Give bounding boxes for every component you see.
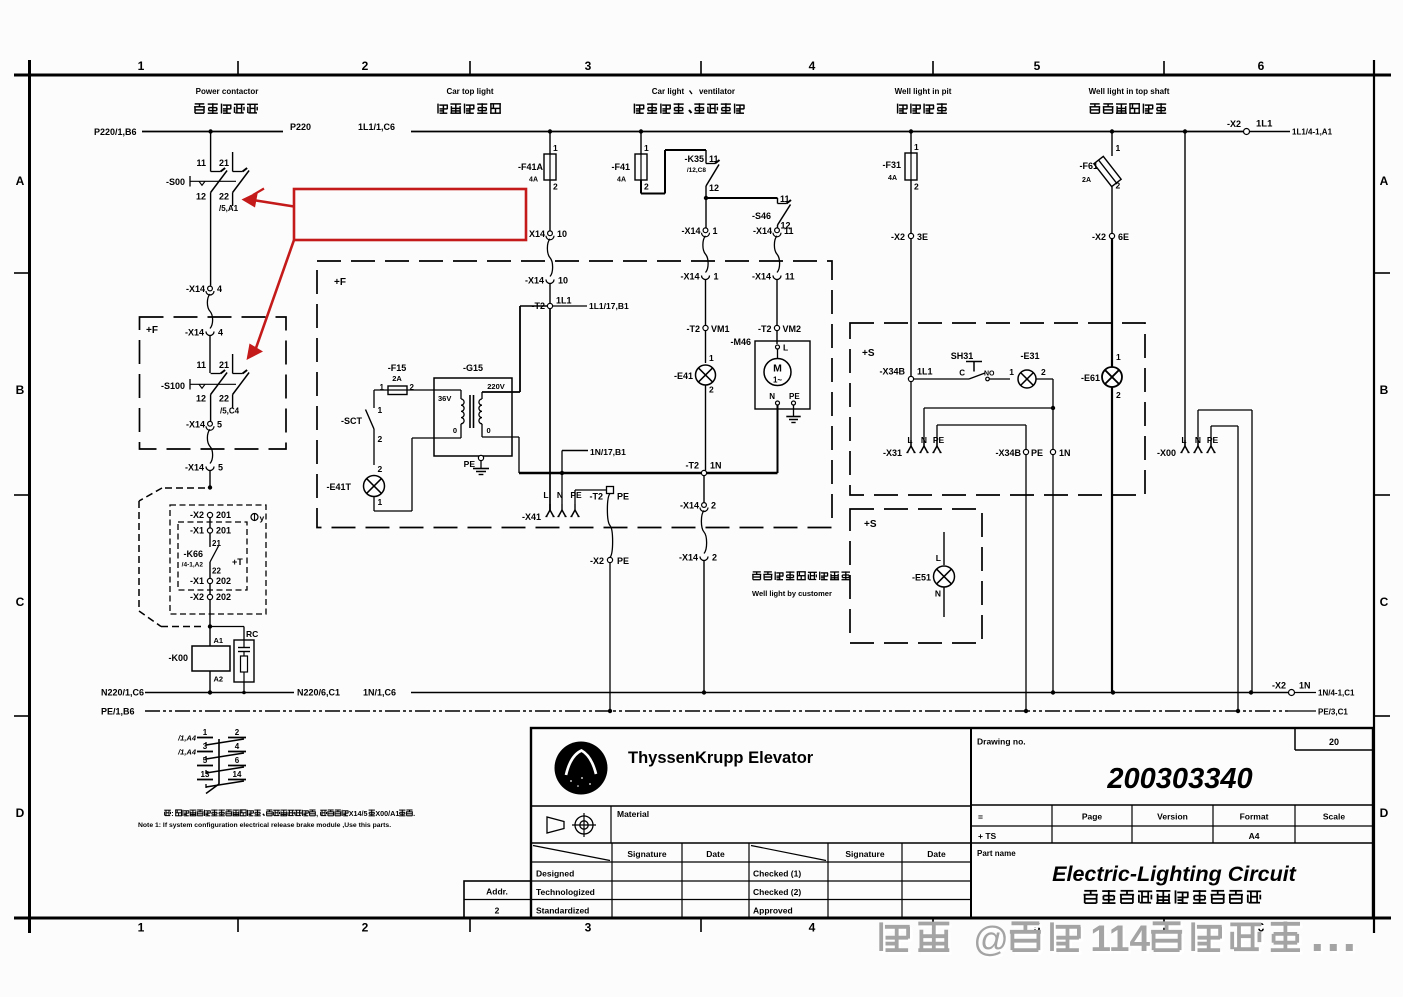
- svg-text:3: 3: [585, 59, 592, 73]
- svg-text:Designed: Designed: [536, 869, 574, 879]
- svg-text:1L1: 1L1: [556, 296, 572, 306]
- svg-text:0: 0: [487, 426, 491, 435]
- svg-text:-X34B: -X34B: [995, 448, 1021, 458]
- svg-text:1: 1: [714, 272, 719, 282]
- svg-text:2: 2: [378, 434, 383, 444]
- svg-text:N: N: [557, 490, 563, 500]
- svg-text:1: 1: [138, 921, 145, 935]
- svg-text:Standardized: Standardized: [536, 906, 589, 916]
- svg-text:1: 1: [713, 226, 718, 236]
- svg-text:-SCT: -SCT: [341, 416, 362, 426]
- svg-text:21: 21: [212, 539, 221, 548]
- svg-text:21: 21: [219, 158, 229, 168]
- svg-text:X14/5: X14/5: [349, 809, 368, 818]
- svg-text:-X2: -X2: [190, 510, 204, 520]
- svg-text:PE: PE: [570, 490, 582, 500]
- svg-text:2: 2: [410, 383, 415, 392]
- svg-text:-X2: -X2: [1227, 119, 1241, 129]
- svg-text:A: A: [16, 174, 25, 188]
- svg-text:10: 10: [557, 229, 567, 239]
- svg-text:1N: 1N: [1059, 448, 1071, 458]
- svg-text:Format: Format: [1240, 812, 1269, 822]
- svg-text:200303340: 200303340: [1106, 763, 1252, 795]
- svg-text:C: C: [959, 369, 965, 378]
- svg-text:-X2: -X2: [1092, 232, 1106, 242]
- svg-text:202: 202: [216, 592, 231, 602]
- svg-text:-X2: -X2: [891, 232, 905, 242]
- svg-text:B: B: [1380, 383, 1389, 397]
- svg-text:-X1: -X1: [190, 576, 204, 586]
- svg-text:1L1: 1L1: [1256, 119, 1273, 130]
- svg-text:2: 2: [362, 921, 369, 935]
- svg-text:-S46: -S46: [752, 211, 771, 221]
- svg-text:1: 1: [378, 405, 383, 415]
- svg-text:Signature: Signature: [845, 849, 884, 859]
- svg-text:201: 201: [216, 510, 231, 520]
- svg-text:12: 12: [196, 394, 206, 404]
- svg-text:NO: NO: [984, 371, 995, 378]
- svg-text:1L1: 1L1: [917, 367, 933, 377]
- svg-text:1L1/1,C6: 1L1/1,C6: [358, 122, 395, 132]
- svg-text:1N/4-1,C1: 1N/4-1,C1: [1318, 689, 1355, 698]
- svg-text:-T2: -T2: [758, 324, 772, 334]
- svg-text:PE: PE: [933, 435, 945, 445]
- svg-text:-T2: -T2: [686, 461, 700, 471]
- svg-text:-F41A: -F41A: [518, 162, 544, 172]
- svg-text:1L1/17,B1: 1L1/17,B1: [589, 301, 629, 311]
- svg-text:Checked (1): Checked (1): [753, 869, 801, 879]
- svg-text:+S: +S: [862, 348, 875, 359]
- svg-text:-E61: -E61: [1081, 373, 1100, 383]
- svg-text:/12,C8: /12,C8: [687, 167, 707, 174]
- svg-text:N: N: [769, 392, 775, 401]
- svg-text:-X14: -X14: [680, 501, 699, 511]
- svg-text:-X2: -X2: [590, 556, 604, 566]
- svg-text:N: N: [935, 589, 941, 599]
- svg-text:ventilator: ventilator: [699, 87, 735, 96]
- svg-text:-E51: -E51: [912, 573, 931, 583]
- svg-text:-F41: -F41: [611, 162, 630, 172]
- svg-text:-X14: -X14: [752, 272, 771, 282]
- svg-text:3: 3: [203, 742, 208, 751]
- svg-text:X14: X14: [529, 229, 545, 239]
- svg-text:Date: Date: [706, 849, 725, 859]
- svg-text:12: 12: [709, 183, 719, 193]
- svg-text:2: 2: [1116, 181, 1121, 191]
- svg-text:1: 1: [914, 142, 919, 152]
- svg-text:4: 4: [235, 742, 240, 751]
- svg-text:-F31: -F31: [882, 160, 901, 170]
- svg-text:1~: 1~: [773, 376, 782, 385]
- svg-text:Note 1: If system configurati: Note 1: If system configuration electric…: [138, 822, 391, 829]
- svg-text:202: 202: [216, 576, 231, 586]
- svg-text:-X31: -X31: [883, 448, 902, 458]
- svg-text:M: M: [773, 363, 782, 375]
- svg-text:Approved: Approved: [753, 906, 793, 916]
- svg-text:1N: 1N: [1299, 681, 1311, 691]
- svg-text:@: @: [973, 920, 1009, 959]
- svg-text:Well light in top shaft: Well light in top shaft: [1089, 87, 1170, 96]
- svg-text:-X14: -X14: [186, 284, 205, 294]
- svg-text:=: =: [978, 812, 983, 822]
- svg-text:Signature: Signature: [627, 849, 666, 859]
- svg-text:201: 201: [216, 526, 231, 536]
- svg-text:2A: 2A: [392, 374, 402, 383]
- svg-text:2: 2: [1116, 390, 1121, 400]
- svg-text:2: 2: [553, 182, 558, 192]
- svg-text:-X14: -X14: [680, 272, 699, 282]
- svg-text:-K66: -K66: [183, 549, 203, 559]
- svg-text:+F: +F: [334, 277, 346, 288]
- svg-text:2: 2: [235, 728, 240, 737]
- svg-text:+T: +T: [232, 557, 243, 567]
- svg-text:11: 11: [784, 226, 794, 236]
- svg-text:220V: 220V: [487, 382, 505, 391]
- svg-text:-X14: -X14: [681, 226, 700, 236]
- svg-text:1: 1: [553, 143, 558, 153]
- svg-text:-S100: -S100: [161, 381, 185, 391]
- svg-text:A1: A1: [214, 636, 224, 645]
- svg-text:-X1: -X1: [190, 526, 204, 536]
- svg-text:-K35: -K35: [684, 154, 704, 164]
- svg-text:5: 5: [203, 756, 208, 765]
- svg-text:1: 1: [203, 728, 208, 737]
- svg-text:PE/3,C1: PE/3,C1: [1318, 708, 1348, 717]
- svg-text:RC: RC: [246, 629, 258, 639]
- svg-text:.: .: [413, 809, 415, 818]
- svg-text:10: 10: [558, 276, 568, 286]
- svg-text:5: 5: [217, 419, 222, 429]
- svg-text::: :: [171, 809, 173, 818]
- svg-text:4: 4: [809, 59, 816, 73]
- svg-text:A2: A2: [214, 675, 224, 684]
- svg-text:X00/A1: X00/A1: [375, 809, 399, 818]
- svg-text:PE/1,B6: PE/1,B6: [101, 707, 135, 717]
- svg-text:1: 1: [380, 383, 385, 392]
- svg-text:Page: Page: [1082, 812, 1103, 822]
- svg-text:-X14: -X14: [525, 276, 544, 286]
- svg-text:1: 1: [1009, 367, 1014, 377]
- svg-text:6: 6: [1258, 59, 1265, 73]
- svg-text:-X00: -X00: [1157, 448, 1176, 458]
- svg-text:Electric-Lighting Circuit: Electric-Lighting Circuit: [1052, 862, 1297, 886]
- svg-text:L: L: [783, 343, 788, 353]
- svg-text:/1,A4: /1,A4: [177, 748, 197, 757]
- svg-text:21: 21: [219, 360, 229, 370]
- svg-text:-X14: -X14: [753, 226, 772, 236]
- svg-text:Power contactor: Power contactor: [196, 87, 259, 96]
- svg-text:-X41: -X41: [522, 512, 541, 522]
- svg-text:5: 5: [218, 463, 223, 473]
- svg-text:+ TS: + TS: [978, 831, 997, 841]
- svg-text:-M46: -M46: [730, 337, 751, 347]
- svg-text:,: ,: [316, 809, 318, 818]
- svg-text:-E31: -E31: [1020, 351, 1039, 361]
- svg-text:2: 2: [378, 464, 383, 474]
- svg-text:PE: PE: [1031, 448, 1043, 458]
- svg-text:11: 11: [785, 272, 795, 282]
- svg-text:4: 4: [809, 921, 816, 935]
- svg-text:-X2: -X2: [190, 592, 204, 602]
- svg-text:4A: 4A: [529, 177, 538, 184]
- svg-text:-X14: -X14: [186, 419, 205, 429]
- svg-text:PE: PE: [617, 556, 629, 566]
- svg-text:VM2: VM2: [783, 324, 802, 334]
- svg-text:14: 14: [233, 770, 242, 779]
- svg-text:D: D: [1380, 806, 1389, 820]
- svg-text:-T2: -T2: [687, 324, 701, 334]
- svg-text:y: y: [260, 513, 265, 523]
- svg-text:N220/1,C6: N220/1,C6: [101, 688, 144, 698]
- svg-text:22: 22: [219, 192, 229, 202]
- svg-text:Well light in pit: Well light in pit: [895, 87, 952, 96]
- svg-text:36V: 36V: [438, 394, 451, 403]
- svg-text:SH31: SH31: [951, 351, 974, 361]
- svg-text:2A: 2A: [1082, 177, 1091, 184]
- svg-text:Car top light: Car top light: [446, 87, 493, 96]
- svg-text:-F61: -F61: [1079, 161, 1098, 171]
- svg-text:1N/17,B1: 1N/17,B1: [590, 447, 626, 457]
- svg-text:1L1/4-1,A1: 1L1/4-1,A1: [1292, 128, 1333, 137]
- svg-text:-X34B: -X34B: [879, 367, 905, 377]
- svg-text:B: B: [16, 383, 25, 397]
- svg-text:-T2: -T2: [590, 492, 604, 502]
- svg-text:A: A: [1380, 174, 1389, 188]
- svg-text:+S: +S: [864, 519, 877, 530]
- svg-text:Checked (2): Checked (2): [753, 887, 801, 897]
- svg-text:2: 2: [362, 59, 369, 73]
- svg-text:2: 2: [711, 501, 716, 511]
- svg-text:-G15: -G15: [463, 363, 483, 373]
- svg-text:2: 2: [495, 906, 500, 916]
- svg-text:6E: 6E: [1118, 232, 1129, 242]
- svg-text:-F15: -F15: [388, 363, 407, 373]
- svg-text:13: 13: [201, 770, 210, 779]
- svg-text:Date: Date: [927, 849, 946, 859]
- svg-text:1N: 1N: [710, 461, 722, 471]
- svg-text:Scale: Scale: [1323, 812, 1345, 822]
- svg-text:Addr.: Addr.: [486, 887, 508, 897]
- svg-text:1: 1: [138, 59, 145, 73]
- svg-text:PE: PE: [789, 392, 800, 401]
- svg-text:VM1: VM1: [711, 324, 730, 334]
- svg-text:22: 22: [212, 567, 221, 576]
- svg-text:Technologized: Technologized: [536, 887, 595, 897]
- svg-text:-E41T: -E41T: [326, 482, 351, 492]
- svg-text:114: 114: [1090, 918, 1150, 959]
- svg-text:12: 12: [196, 192, 206, 202]
- svg-text:1: 1: [709, 353, 714, 363]
- svg-text:4: 4: [218, 328, 223, 338]
- svg-text:4A: 4A: [888, 175, 897, 182]
- svg-text:Car light: Car light: [652, 87, 685, 96]
- svg-text:5: 5: [1034, 59, 1041, 73]
- svg-text:L: L: [907, 435, 912, 445]
- svg-text:-K00: -K00: [168, 653, 188, 663]
- svg-text:Drawing no.: Drawing no.: [977, 737, 1026, 747]
- svg-text:/5,A1: /5,A1: [219, 204, 239, 213]
- svg-text:2: 2: [644, 182, 649, 192]
- svg-text:L: L: [1181, 435, 1186, 445]
- svg-text:2: 2: [709, 385, 714, 395]
- svg-text:4A: 4A: [617, 177, 626, 184]
- svg-text:-X14: -X14: [185, 328, 204, 338]
- svg-text:3E: 3E: [917, 232, 928, 242]
- svg-text:22: 22: [219, 394, 229, 404]
- svg-text:11: 11: [196, 158, 206, 168]
- svg-text:Well light by customer: Well light by customer: [752, 589, 832, 598]
- svg-text:PE: PE: [1207, 435, 1219, 445]
- svg-text:4: 4: [217, 284, 222, 294]
- svg-text:N220/6,C1: N220/6,C1: [297, 688, 340, 698]
- svg-text:-X2: -X2: [1272, 681, 1286, 691]
- svg-text:D: D: [16, 806, 25, 820]
- svg-text:/1,A4: /1,A4: [177, 734, 197, 743]
- svg-text:-X14: -X14: [679, 553, 698, 563]
- svg-text:/4-1,A2: /4-1,A2: [182, 562, 204, 569]
- svg-text:1: 1: [644, 143, 649, 153]
- svg-text:A4: A4: [1249, 831, 1260, 841]
- svg-text:1: 1: [378, 497, 383, 507]
- svg-text:Material: Material: [617, 809, 649, 819]
- svg-text:Version: Version: [1157, 812, 1188, 822]
- svg-text:P220: P220: [290, 122, 311, 132]
- svg-text:6: 6: [235, 756, 240, 765]
- svg-text:2: 2: [914, 182, 919, 192]
- svg-text:0: 0: [453, 426, 457, 435]
- svg-text:20: 20: [1329, 737, 1339, 747]
- svg-text:PE: PE: [464, 459, 476, 469]
- svg-text:C: C: [16, 595, 25, 609]
- svg-text:2: 2: [712, 553, 717, 563]
- svg-text:Part name: Part name: [977, 849, 1016, 858]
- svg-text:-E41: -E41: [674, 371, 693, 381]
- svg-text:3: 3: [585, 921, 592, 935]
- svg-text:C: C: [1380, 595, 1389, 609]
- svg-text:-S00: -S00: [166, 177, 185, 187]
- svg-text:P220/1,B6: P220/1,B6: [94, 127, 137, 137]
- svg-text:1: 1: [1116, 143, 1121, 153]
- svg-text:2: 2: [1041, 367, 1046, 377]
- svg-text:-X14: -X14: [185, 463, 204, 473]
- svg-text:+F: +F: [146, 325, 158, 336]
- svg-text:/5,C4: /5,C4: [220, 407, 240, 416]
- svg-text:L: L: [936, 553, 941, 563]
- svg-text:PE: PE: [617, 492, 629, 502]
- svg-text:L: L: [543, 490, 548, 500]
- svg-text:ThyssenKrupp Elevator: ThyssenKrupp Elevator: [628, 749, 814, 767]
- svg-text:1N/1,C6: 1N/1,C6: [363, 688, 396, 698]
- svg-text:11: 11: [196, 360, 206, 370]
- svg-text:1: 1: [1116, 352, 1121, 362]
